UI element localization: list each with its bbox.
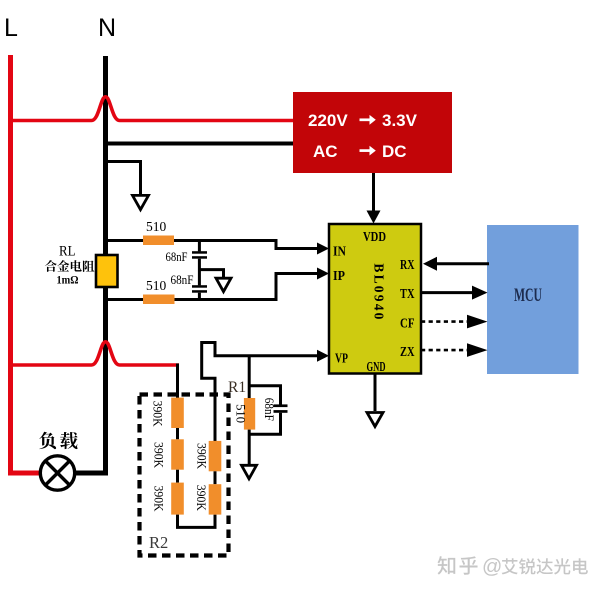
svg-text:IN: IN (333, 245, 346, 260)
ground (between C1 and C2) (216, 278, 231, 291)
svg-text:390K: 390K (151, 401, 165, 427)
wire divider to VP (jog) (202, 343, 215, 442)
svg-text:VDD: VDD (363, 230, 386, 245)
svg-text:510: 510 (146, 219, 167, 234)
svg-text:IP: IP (333, 269, 345, 284)
wire L (live) vertical red (8, 55, 13, 476)
svg-text:TX: TX (400, 287, 415, 302)
resistor R2c 390K (171, 483, 184, 515)
svg-text:390K: 390K (151, 442, 165, 468)
svg-text:@: @ (482, 556, 502, 578)
svg-text:390K: 390K (151, 486, 165, 512)
svg-text:VP: VP (335, 352, 348, 367)
wire N to ground stub (106, 162, 141, 195)
svg-text:390K: 390K (194, 443, 208, 469)
AC-DC power module U2 (220V AC to 3.3V DC) (293, 92, 452, 173)
wire N through R4 to IP pin (arrow) (106, 268, 330, 300)
resistor R1 510 (244, 398, 255, 430)
wire AC-DC to VDD with arrow (367, 173, 381, 224)
capacitor C2 68nF (IP filter) (192, 285, 207, 299)
svg-text:ZX: ZX (400, 345, 415, 360)
wire R2d to R2e (214, 471, 217, 484)
svg-text:L: L (4, 14, 18, 42)
ground (below BL0940) (367, 413, 383, 427)
svg-text:MCU: MCU (514, 285, 542, 306)
ground (below R1) (242, 465, 257, 478)
resistor R2e 390K (209, 484, 222, 514)
svg-text:3.3V: 3.3V (382, 111, 418, 130)
wire GND pin to ground (374, 374, 377, 412)
IC U1 BL0940 energy metering chip (329, 224, 421, 375)
MCU block (487, 225, 579, 374)
svg-text:68nF: 68nF (171, 273, 194, 287)
svg-text:510: 510 (146, 278, 167, 293)
wire L to AC-DC module (red, hops over N) (9, 97, 293, 121)
svg-text:RX: RX (400, 258, 415, 273)
R2 divider network dashed box (140, 395, 229, 556)
wire caps midpoint to ground (199, 270, 223, 277)
svg-text:R1: R1 (228, 379, 246, 396)
resistor R2d 390K (209, 441, 222, 471)
lamp (load) (40, 456, 74, 490)
svg-text:510: 510 (234, 404, 248, 423)
svg-text:AC: AC (313, 142, 338, 161)
RL label alloy resistor (Chinese) (45, 260, 95, 272)
wire N (neutral) vertical black (103, 56, 108, 476)
resistor R2b 390K (171, 439, 184, 469)
svg-text:CF: CF (400, 317, 415, 332)
resistor R2a 390K (171, 398, 184, 428)
svg-text:390K: 390K (194, 485, 208, 511)
wire L branch to voltage divider (red, hops over N) (11, 342, 180, 365)
load label (Chinese fuzai) (39, 432, 77, 449)
wire R2a to R2b (176, 428, 179, 439)
capacitor C3 68nF (VP filter) (249, 386, 287, 435)
watermark zhihu (438, 556, 590, 578)
svg-text:DC: DC (382, 142, 407, 161)
resistor RL shunt 1mOhm (96, 255, 118, 287)
svg-text:68nF: 68nF (262, 398, 276, 421)
svg-text:68nF: 68nF (166, 250, 188, 264)
wire VP node down to R1 (248, 356, 251, 398)
wire RX: MCU to BL0940 (arrow) (423, 257, 489, 271)
wire TX: BL0940 to MCU (arrow) (421, 286, 488, 300)
svg-text:GND: GND (367, 360, 386, 375)
wire bottom connecting columns (178, 515, 216, 528)
ground (top, near N) (133, 195, 149, 209)
svg-text:R2: R2 (149, 533, 168, 552)
capacitor C1 68nF (IN filter) (192, 241, 207, 286)
resistor R4 510 (IP series) (143, 295, 175, 305)
wire N through R3 to IN pin (arrow) (106, 241, 330, 255)
wire R2b to R2c (176, 470, 179, 483)
svg-text:220V: 220V (308, 111, 348, 130)
svg-text:BL0940: BL0940 (372, 263, 387, 321)
resistor R3 510 (IN series) (143, 236, 174, 246)
wire divider top vertical (176, 364, 179, 399)
wire R1 to ground (248, 430, 251, 464)
wire L to lamp (red) (8, 471, 41, 476)
wire CF: BL0940 to MCU (dashed arrow) (421, 315, 488, 329)
svg-text:N: N (98, 14, 116, 42)
wire N to AC-DC module (106, 142, 294, 146)
svg-text:RL: RL (59, 244, 76, 260)
svg-text:1mΩ: 1mΩ (57, 273, 79, 287)
wire ZX: BL0940 to MCU (dashed arrow) (421, 343, 488, 357)
wire lamp to N (black) (75, 471, 109, 476)
wire VP with arrow (214, 350, 330, 362)
